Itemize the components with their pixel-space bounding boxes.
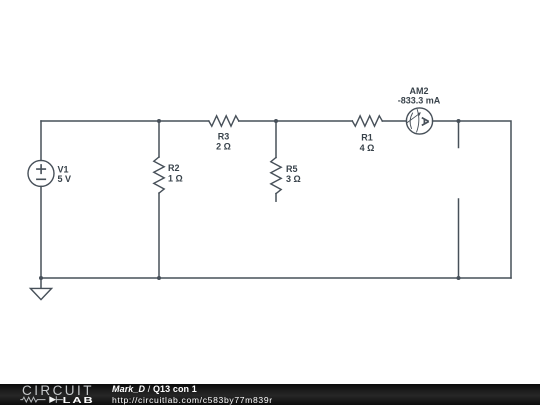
svg-text:R1: R1 <box>361 132 373 142</box>
svg-text:R2: R2 <box>168 163 180 173</box>
node junction at R2 top <box>157 119 161 123</box>
wire V1 bottom to bottom-left corner <box>40 186 42 278</box>
wire left vertical top (to V1) <box>40 121 42 160</box>
resistor R1 <box>352 116 382 126</box>
wire R1 right to AM2 left <box>382 120 406 122</box>
svg-text:V1: V1 <box>58 165 69 175</box>
node junction at stub bottom <box>457 276 461 280</box>
node junction at R2 bottom <box>157 276 161 280</box>
ammeter AM2 <box>406 108 432 134</box>
footer bar <box>0 384 540 405</box>
wire open stub lower right <box>458 199 460 278</box>
svg-text:4 Ω: 4 Ω <box>360 143 375 153</box>
wire open stub upper right <box>458 121 460 148</box>
node junction at ground <box>39 276 43 280</box>
svg-text:1 Ω: 1 Ω <box>168 173 183 183</box>
svg-text:2 Ω: 2 Ω <box>216 141 231 151</box>
voltage source V1 <box>28 160 54 186</box>
resistor R3 <box>209 116 239 126</box>
wire R5 open stub <box>275 194 277 202</box>
node junction at R5 top <box>274 119 278 123</box>
svg-text:LAB: LAB <box>63 396 95 405</box>
wire R2 branch top <box>158 121 160 157</box>
wire R5 branch top <box>275 121 277 158</box>
footer title text <box>112 385 197 394</box>
wire bottom horizontal <box>41 277 511 279</box>
wire R2 branch bottom <box>158 193 160 278</box>
wire R3 right to R1 left <box>239 120 352 122</box>
wire top-left horizontal (V1 top to R3 left) <box>41 120 209 122</box>
svg-text:3 Ω: 3 Ω <box>286 174 301 184</box>
svg-text:-833.3 mA: -833.3 mA <box>398 95 441 105</box>
ground <box>30 288 51 299</box>
node junction at stub top <box>457 119 461 123</box>
svg-text:5 V: 5 V <box>58 174 72 184</box>
footer url text <box>112 396 273 405</box>
resistor R5 <box>271 158 281 194</box>
svg-text:R3: R3 <box>218 132 230 142</box>
wire ground stub <box>40 278 42 288</box>
resistor R2 <box>154 157 164 193</box>
wire AM2 right to top-right corner and down <box>433 121 511 278</box>
svg-text:R5: R5 <box>286 164 298 174</box>
CircuitLab logo <box>0 384 100 405</box>
